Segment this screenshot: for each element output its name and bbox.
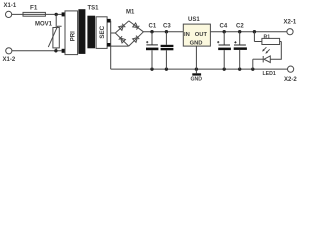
- svg-text:TS1: TS1: [88, 6, 100, 12]
- svg-text:C1: C1: [149, 24, 157, 30]
- wire R1 to LED1: [270, 42, 281, 60]
- terminal X2-2: [284, 66, 297, 83]
- node LED1 bottom: [251, 67, 254, 70]
- svg-text:C4: C4: [220, 24, 228, 30]
- node GND rail: [195, 67, 198, 70]
- svg-text:SEC: SEC: [99, 25, 106, 38]
- svg-text:US1: US1: [188, 17, 200, 23]
- diamond edge lower-left: [115, 33, 128, 46]
- wire MOV1 top drop: [55, 14, 57, 27]
- resistor R1: [254, 32, 281, 45]
- fuse F1: [23, 5, 45, 17]
- node C1 top: [150, 30, 153, 33]
- node C4 top: [223, 30, 226, 33]
- ground: [191, 69, 203, 82]
- svg-text:X1-1: X1-1: [4, 3, 17, 9]
- SEC pin bottom: [107, 43, 111, 47]
- node R1 top: [253, 30, 256, 33]
- diamond edge upper-left: [115, 21, 129, 33]
- junction node (MOV1 bottom): [54, 49, 57, 52]
- svg-text:X2-2: X2-2: [284, 77, 297, 83]
- diode D-LL: [119, 36, 126, 43]
- node C2 bottom: [238, 67, 241, 70]
- wire X1-1 to fuse and PRI top pin: [12, 13, 62, 15]
- node C3 top: [165, 30, 168, 33]
- terminal X2-1: [284, 20, 297, 35]
- svg-text:LED1: LED1: [263, 71, 276, 77]
- svg-text:X2-1: X2-1: [284, 20, 297, 26]
- LED LED1: [253, 47, 276, 77]
- wire X1-2 to PRI bottom pin: [12, 50, 62, 52]
- svg-text:MOV1: MOV1: [35, 22, 53, 28]
- varistor MOV1: [35, 22, 62, 51]
- diamond edge lower-right: [129, 32, 144, 46]
- svg-text:C2: C2: [236, 24, 244, 30]
- transformer TS1: [62, 6, 111, 55]
- emission arrows: [264, 47, 267, 50]
- bridge rectifier M1: [115, 10, 143, 47]
- svg-text:OUT: OUT: [195, 32, 208, 38]
- svg-text:R1: R1: [264, 34, 271, 40]
- wire stub to bridge AC left: [111, 32, 116, 34]
- svg-text:PRI: PRI: [71, 31, 77, 41]
- node C3 bottom: [165, 67, 168, 70]
- diode D-UL: [119, 24, 126, 31]
- node C2 top: [238, 30, 241, 33]
- node C4 bottom: [223, 67, 226, 70]
- capacitor C2: [234, 24, 247, 70]
- junction node (fuse / MOV1 top): [55, 13, 58, 16]
- wire SEC vertical bus: [110, 21, 112, 69]
- svg-text:GND: GND: [190, 41, 203, 47]
- svg-text:GND: GND: [191, 77, 203, 83]
- svg-text:C3: C3: [163, 24, 171, 30]
- wire DC plus rail: [143, 31, 287, 33]
- PRI pin top: [62, 12, 66, 16]
- capacitor C1: [146, 24, 158, 70]
- SEC winding box: [96, 17, 107, 49]
- SEC pin top: [107, 19, 111, 23]
- core bar primary: [78, 9, 85, 54]
- wire DC minus rail: [111, 68, 288, 70]
- core bar secondary: [87, 16, 95, 49]
- svg-text:IN: IN: [184, 32, 190, 38]
- diode D-UR: [133, 23, 140, 30]
- wire to bridge AC bottom: [111, 45, 129, 47]
- node C1 bottom: [150, 67, 153, 70]
- terminal X1-2: [3, 48, 16, 63]
- PRI pin bottom: [62, 49, 66, 53]
- regulator US1: [183, 17, 210, 47]
- svg-text:F1: F1: [30, 5, 38, 12]
- svg-text:X1-2: X1-2: [3, 57, 16, 63]
- svg-text:M1: M1: [126, 10, 135, 16]
- diode D-LR: [133, 36, 140, 43]
- diamond edge upper-right: [129, 21, 144, 32]
- PRI winding box: [65, 11, 78, 55]
- wire US1 GND pin: [195, 46, 197, 69]
- capacitor C3: [161, 24, 174, 70]
- capacitor C4: [217, 24, 231, 70]
- terminal X1-1: [4, 3, 17, 18]
